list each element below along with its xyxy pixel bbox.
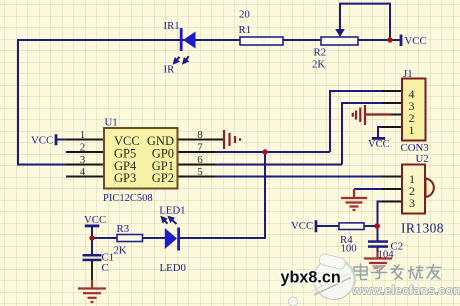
svg-text:VCC: VCC [291,220,313,232]
svg-text:www.elecfans.com: www.elecfans.com [351,284,460,298]
svg-text:R2: R2 [314,47,327,59]
svg-text:4: 4 [80,166,86,178]
svg-text:LED1: LED1 [159,204,185,216]
svg-text:U1: U1 [105,117,118,129]
svg-text:3: 3 [80,154,86,166]
svg-text:20: 20 [239,9,250,21]
svg-text:VCC: VCC [405,35,427,47]
svg-text:2K: 2K [114,244,127,256]
svg-text:2K: 2K [312,59,325,71]
svg-text:IR: IR [164,63,176,75]
svg-text:GP3: GP3 [114,171,136,185]
svg-text:3: 3 [409,196,415,210]
svg-text:IR1308: IR1308 [401,221,444,236]
svg-text:J1: J1 [403,68,413,80]
svg-text:U2: U2 [416,153,429,165]
svg-text:7: 7 [197,142,203,154]
svg-text:100: 100 [341,242,357,254]
svg-text:VCC: VCC [84,214,106,226]
svg-text:LED0: LED0 [160,262,186,274]
svg-text:104: 104 [378,248,395,260]
svg-text:1: 1 [80,129,86,141]
svg-text:R3: R3 [117,223,130,235]
svg-text:8: 8 [197,129,203,141]
svg-text:PIC12C508: PIC12C508 [103,193,153,204]
svg-text:6: 6 [197,154,203,166]
svg-text:R1: R1 [239,24,252,36]
svg-text:2: 2 [80,142,86,154]
svg-text:VCC: VCC [31,135,53,147]
svg-text:C: C [102,262,109,274]
svg-text:1: 1 [409,123,415,137]
svg-text:ybx8.cn: ybx8.cn [281,269,341,287]
svg-text:GP2: GP2 [152,171,174,185]
svg-text:VCC: VCC [368,139,390,150]
svg-text:IR1: IR1 [164,20,180,32]
svg-text:5: 5 [197,166,203,178]
